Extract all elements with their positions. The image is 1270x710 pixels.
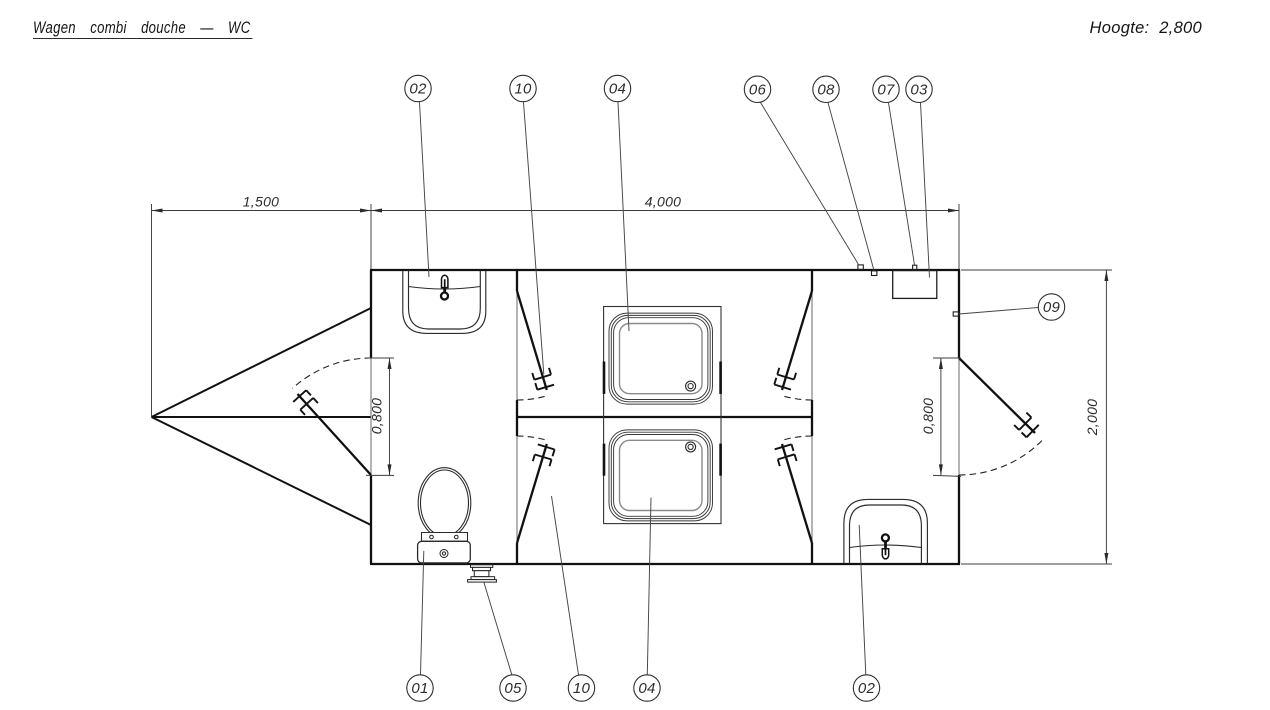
dimension 0,800 right door bbox=[920, 358, 961, 476]
leader line 01 bbox=[421, 551, 424, 675]
svg-text:2,000: 2,000 bbox=[1084, 399, 1100, 437]
interior door top-right bbox=[774, 291, 812, 400]
svg-text:03: 03 bbox=[910, 82, 928, 99]
svg-text:4,000: 4,000 bbox=[645, 194, 682, 210]
svg-text:02: 02 bbox=[858, 680, 876, 697]
shower screen stubs bbox=[604, 362, 721, 476]
shower tray top drain bbox=[686, 381, 696, 391]
entry step (05) bbox=[468, 565, 497, 582]
leader line 04 bottom bbox=[647, 498, 651, 675]
interior door bottom-left bbox=[517, 436, 555, 543]
leader line 10 top bbox=[524, 102, 544, 374]
trailer hitch upper diagonal bbox=[152, 308, 372, 417]
leader line 03 bbox=[921, 103, 930, 278]
wall fitting square 07 bbox=[913, 265, 917, 269]
dimension 0,800 left door bbox=[366, 358, 394, 475]
svg-text:09: 09 bbox=[1043, 299, 1061, 316]
svg-text:0,800: 0,800 bbox=[369, 398, 385, 435]
svg-text:10: 10 bbox=[514, 81, 532, 98]
trailer hitch lower diagonal bbox=[152, 417, 372, 525]
shower tray bottom bbox=[609, 430, 713, 521]
leader line 06 bbox=[761, 103, 859, 265]
leader line 07 bbox=[889, 103, 915, 265]
callout circle 08 at (826,89.3) bbox=[813, 76, 839, 102]
callout circle 03 at (919,89.3) bbox=[906, 76, 932, 102]
shower tray top bbox=[609, 313, 713, 404]
svg-text:06: 06 bbox=[749, 82, 767, 99]
svg-text:10: 10 bbox=[573, 680, 591, 697]
svg-text:02: 02 bbox=[409, 81, 427, 98]
middle partition wall bbox=[517, 416, 812, 418]
dimension 1,500 bbox=[152, 194, 372, 418]
callout circle 07 at (886,89.3) bbox=[873, 76, 899, 102]
callout circle 10 at (581.5,688) bbox=[568, 675, 594, 701]
callout circle 09 at (1051.5,307) bbox=[1038, 294, 1064, 320]
svg-text:1,500: 1,500 bbox=[243, 194, 280, 210]
shower tray bottom drain bbox=[686, 442, 696, 452]
wall fitting square 06 bbox=[858, 265, 863, 269]
interior door bottom-right bbox=[775, 436, 812, 543]
leader line 08 bbox=[828, 103, 874, 271]
exterior door left bbox=[292, 358, 371, 475]
dimension 2,000 bbox=[961, 270, 1112, 564]
washbasin bottom (02) bbox=[844, 499, 928, 563]
callout circle 01 at (420,688) bbox=[407, 675, 433, 701]
toilet (01) bbox=[418, 468, 471, 563]
leader line 02 top bbox=[420, 102, 430, 277]
top exterior wall bbox=[370, 269, 960, 271]
leader line 10 bottom bbox=[552, 496, 579, 675]
svg-text:01: 01 bbox=[411, 680, 428, 697]
svg-text:04: 04 bbox=[609, 81, 626, 98]
leader line 09 bbox=[959, 308, 1039, 315]
wall cabinet (03) bbox=[893, 271, 937, 299]
shower enclosure outer rectangle bbox=[604, 307, 721, 524]
right exterior wall segments bbox=[958, 270, 960, 564]
callout circle 10 at (523,88.5) bbox=[510, 75, 536, 101]
interior wall 1 segments bbox=[516, 270, 518, 564]
exterior door right bbox=[959, 358, 1042, 475]
wall fitting square 08 bbox=[872, 271, 877, 276]
callout circle 02 at (418,88.5) bbox=[405, 75, 431, 101]
leader line 04 top bbox=[618, 102, 629, 331]
left exterior wall segments bbox=[370, 270, 372, 564]
callout circle 04 at (647,688) bbox=[634, 675, 660, 701]
svg-text:05: 05 bbox=[504, 680, 522, 697]
callout circle 05 at (513,688) bbox=[500, 675, 526, 701]
interior wall 2 segments bbox=[811, 270, 813, 564]
svg-text:0,800: 0,800 bbox=[920, 398, 936, 435]
drawing title bbox=[33, 21, 252, 39]
leader line 05 bbox=[484, 582, 512, 675]
dimension 4,000 bbox=[371, 194, 959, 270]
svg-text:08: 08 bbox=[817, 82, 835, 99]
trailer hitch draw bar bbox=[152, 416, 372, 418]
svg-text:07: 07 bbox=[877, 82, 895, 99]
washbasin top (02) bbox=[403, 271, 486, 334]
callout circle 04 at (617.5,88.5) bbox=[604, 75, 630, 101]
height note bbox=[1090, 21, 1202, 36]
leader line 02 bottom bbox=[859, 525, 866, 675]
svg-text:04: 04 bbox=[638, 680, 655, 697]
bottom exterior wall bbox=[370, 563, 960, 565]
callout circle 02 at (866.5,688) bbox=[853, 675, 879, 701]
interior door top-left bbox=[517, 291, 554, 400]
wall fitting square 09 bbox=[953, 312, 958, 316]
callout circle 06 at (757.5,89.3) bbox=[744, 76, 770, 102]
